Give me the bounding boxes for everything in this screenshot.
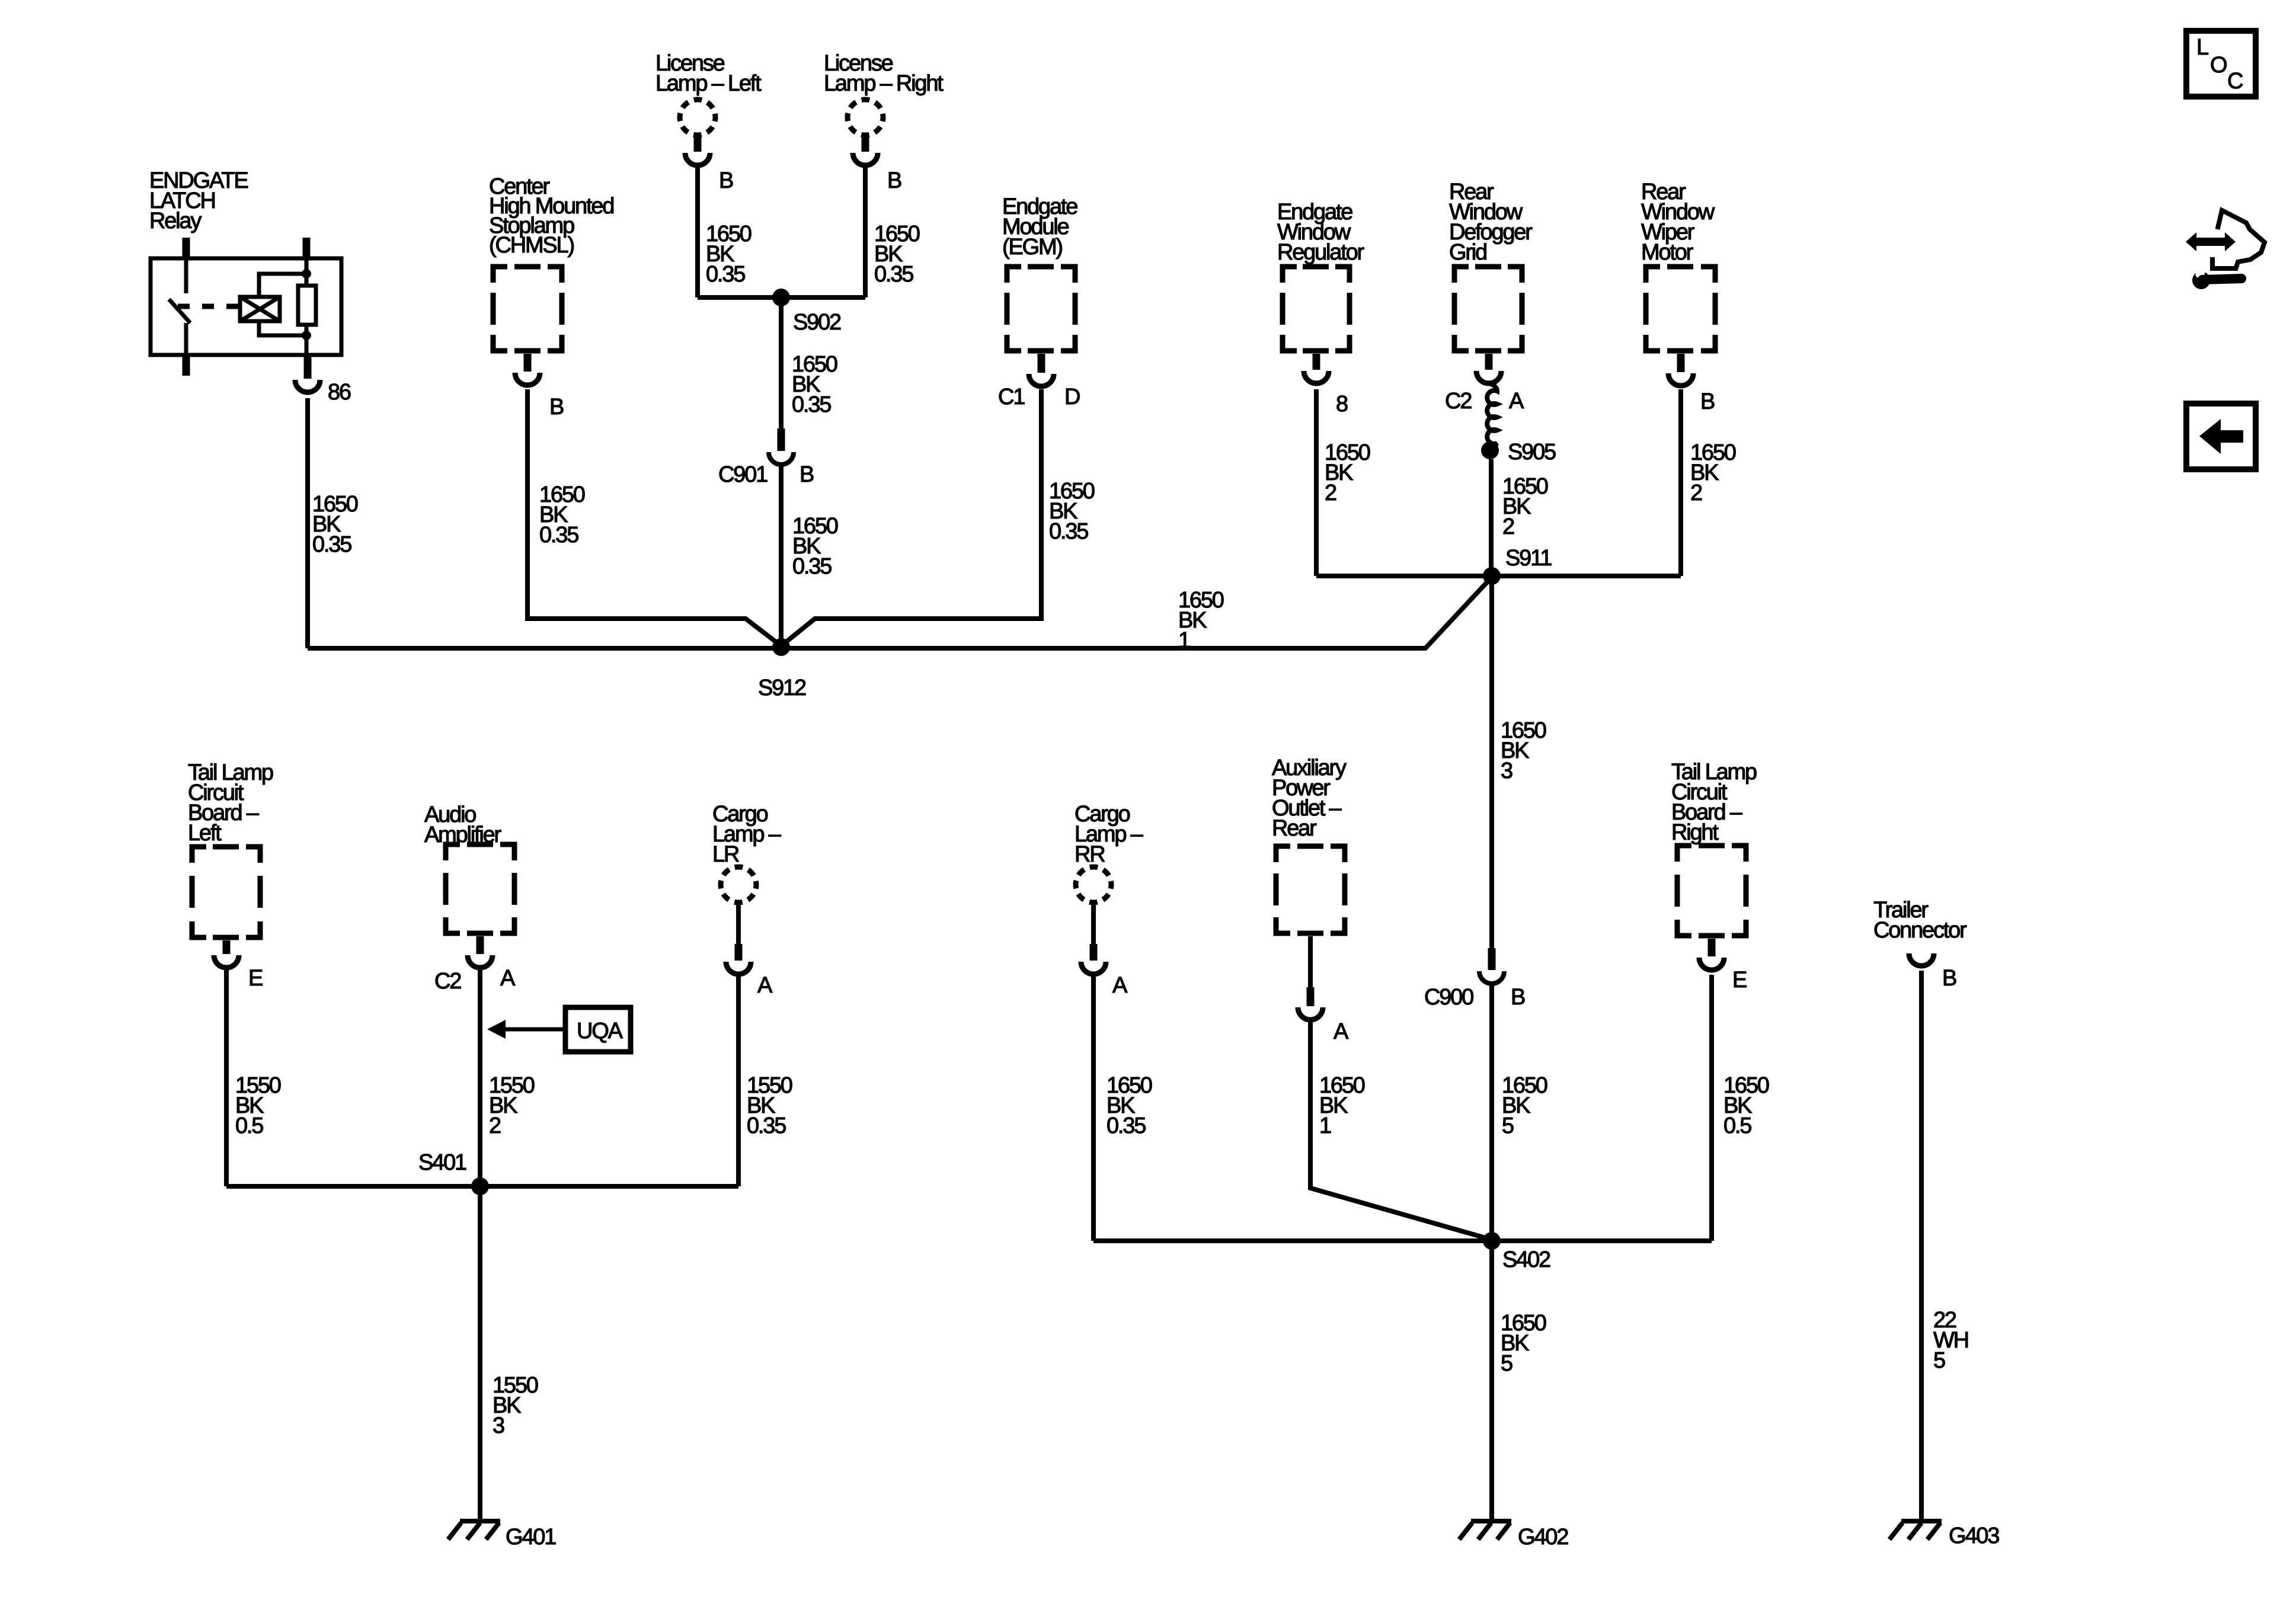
svg-text:A: A: [1112, 973, 1128, 998]
wire Aux Power Outlet lead: [1308, 936, 1313, 987]
relay pin stub top-right: [303, 238, 311, 257]
svg-text:1650BK0.35: 1650BK0.35: [874, 222, 920, 287]
component Audio Amplifier box: [446, 844, 514, 933]
relay internal vertical wire: [305, 257, 309, 357]
component Rear Window Defogger Grid box: [1454, 267, 1522, 351]
wire Cargo RR lamp lead: [1091, 902, 1096, 944]
Tail Lamp Left pin E connector: [214, 940, 239, 968]
Wiper Motor pin B connector: [1668, 354, 1693, 386]
relay ENDGATE LATCH Relay box: [151, 258, 341, 355]
relay actuation dashed line: [178, 304, 240, 309]
svg-text:E: E: [248, 966, 263, 991]
wire CHMSL B to S912: [527, 389, 781, 646]
relay switch contact: [169, 257, 190, 357]
svg-text:1650BK0.5: 1650BK0.5: [1723, 1073, 1769, 1138]
Cargo Lamp LR pin A connector: [726, 944, 751, 974]
wire S402 bus: [1093, 1238, 1712, 1243]
wire EGM D to S912: [781, 389, 1041, 646]
relay internal junction top: [302, 269, 311, 279]
svg-text:1650BK2: 1650BK2: [1690, 440, 1736, 505]
svg-text:B: B: [1942, 966, 1956, 991]
UQA arrow: [487, 1020, 565, 1039]
Tail Lamp Right pin E connector: [1699, 939, 1724, 970]
Aux Power Outlet pin A connector: [1298, 987, 1323, 1020]
splice S401: [471, 1177, 489, 1195]
svg-text:1650BK3: 1650BK3: [1501, 718, 1546, 783]
wire relay 86 to main line: [305, 398, 310, 648]
svg-text:EndgateModule(EGM): EndgateModule(EGM): [1002, 194, 1077, 260]
svg-text:LicenseLamp – Left: LicenseLamp – Left: [655, 51, 762, 96]
relay pin stub top-left: [183, 238, 190, 257]
wire Cargo RR A down: [1091, 975, 1096, 1241]
in-line connector C901: [769, 428, 794, 465]
svg-text:Tail LampCircuitBoard –Right: Tail LampCircuitBoard –Right: [1671, 760, 1757, 845]
Audio Amplifier pin A connector: [468, 936, 493, 968]
svg-text:G401: G401: [506, 1525, 556, 1550]
License Lamp Left pin B connector: [685, 135, 710, 165]
wire Cargo LR lamp lead: [736, 902, 741, 944]
svg-text:1650BK2: 1650BK2: [1502, 474, 1548, 539]
svg-text:AuxiliaryPowerOutlet –Rear: AuxiliaryPowerOutlet –Rear: [1272, 756, 1347, 841]
wire C900 to S402: [1489, 985, 1494, 1241]
svg-text:1550BK0.35: 1550BK0.35: [747, 1073, 792, 1138]
svg-text:C1: C1: [998, 385, 1025, 409]
svg-text:S401: S401: [418, 1150, 466, 1175]
relay coil box with X: [240, 297, 280, 321]
svg-text:8: 8: [1336, 392, 1348, 417]
svg-text:B: B: [1700, 389, 1715, 414]
wire S911 to C900: [1489, 576, 1494, 951]
EGM pin D connector: [1029, 354, 1054, 386]
svg-text:1650BK2: 1650BK2: [1325, 440, 1370, 505]
Trailer Connector pin B connector: [1909, 953, 1934, 966]
wire Regulator 8 down: [1314, 389, 1319, 576]
svg-text:1550BK0.5: 1550BK0.5: [235, 1073, 281, 1138]
svg-text:O: O: [2210, 53, 2227, 78]
relay resistor: [298, 286, 316, 325]
svg-text:A: A: [1509, 389, 1524, 414]
svg-text:C2: C2: [1445, 389, 1472, 414]
ground G402: [1459, 1521, 1511, 1539]
splice S902: [772, 289, 790, 306]
splice S402: [1483, 1232, 1501, 1250]
svg-text:D: D: [1064, 385, 1080, 409]
splice S911: [1483, 567, 1501, 585]
svg-text:CenterHigh MountedStoplamp(CHM: CenterHigh MountedStoplamp(CHMSL): [489, 174, 613, 258]
svg-text:B: B: [887, 168, 901, 193]
defogger coil (fusible link): [1487, 383, 1497, 449]
svg-text:1650BK1: 1650BK1: [1178, 588, 1224, 653]
component EGM box: [1007, 267, 1075, 351]
ground G401: [448, 1521, 500, 1539]
svg-text:1650BK0.35: 1650BK0.35: [706, 222, 752, 287]
icon: back arrow box: [2186, 404, 2256, 469]
svg-text:1650BK0.35: 1650BK0.35: [539, 482, 585, 548]
wire S905 to S911: [1489, 459, 1494, 576]
component CHMSL box: [493, 267, 562, 351]
svg-text:B: B: [1511, 985, 1525, 1010]
splice S905: [1481, 441, 1499, 459]
ground G403: [1889, 1521, 1942, 1539]
Defogger pin A connector: [1476, 354, 1501, 383]
svg-text:G403: G403: [1949, 1523, 1999, 1548]
svg-text:RearWindowDefoggerGrid: RearWindowDefoggerGrid: [1449, 180, 1533, 265]
svg-text:C900: C900: [1424, 985, 1473, 1010]
wire Tail Lamp Left E to S401: [224, 970, 229, 1186]
wire S401 bus: [226, 1184, 738, 1189]
svg-text:S902: S902: [793, 310, 841, 335]
svg-text:B: B: [719, 168, 733, 193]
svg-text:E: E: [1732, 968, 1747, 993]
wire Wiper Motor B down: [1678, 389, 1683, 576]
svg-text:1650BK5: 1650BK5: [1501, 1311, 1546, 1376]
svg-text:A: A: [757, 973, 773, 998]
CHMSL pin B connector: [515, 354, 540, 385]
lamp: Cargo Lamp - LR: [721, 867, 756, 902]
svg-text:TrailerConnector: TrailerConnector: [1873, 898, 1967, 943]
wire Tail Lamp Right E down: [1709, 975, 1714, 1241]
component Endgate Window Regulator box: [1283, 267, 1350, 351]
svg-text:1650BK0.35: 1650BK0.35: [792, 352, 837, 417]
License Lamp Right pin B connector: [853, 135, 878, 165]
icon: animal head with double arrow and wrench: [2186, 210, 2265, 289]
svg-text:A: A: [1334, 1019, 1349, 1044]
svg-text:1650BK0.35: 1650BK0.35: [792, 514, 838, 579]
wire Trailer Connector B to G403: [1919, 971, 1924, 1521]
wire S902 bus: [698, 295, 865, 300]
svg-text:EndgateWindowRegulator: EndgateWindowRegulator: [1277, 200, 1365, 265]
in-line connector C900: [1479, 948, 1504, 984]
svg-text:B: B: [800, 462, 814, 487]
svg-text:S912: S912: [758, 676, 806, 700]
UQA option box: [565, 1007, 631, 1052]
svg-text:86: 86: [328, 380, 351, 405]
svg-text:RearWindowWiperMotor: RearWindowWiperMotor: [1641, 180, 1715, 265]
svg-text:CargoLamp –LR: CargoLamp –LR: [712, 802, 782, 867]
svg-text:S905: S905: [1508, 440, 1556, 465]
svg-text:G402: G402: [1518, 1525, 1568, 1550]
svg-text:22WH5: 22WH5: [1933, 1308, 1968, 1373]
svg-text:LicenseLamp – Right: LicenseLamp – Right: [824, 51, 944, 96]
wire S911 bus: [1316, 574, 1681, 578]
wire main line S912 to S911: [308, 577, 1492, 648]
wire C901 to S912: [779, 466, 784, 647]
svg-text:S402: S402: [1502, 1247, 1550, 1272]
svg-text:C: C: [2227, 69, 2243, 94]
component Tail Lamp Circuit Board Left box: [192, 847, 260, 937]
svg-text:S911: S911: [1505, 546, 1552, 571]
svg-text:Tail LampCircuitBoard –Left: Tail LampCircuitBoard –Left: [188, 760, 273, 846]
svg-text:UQA: UQA: [577, 1019, 623, 1044]
icon: LOC box: [2186, 31, 2256, 97]
Regulator pin 8 connector: [1304, 354, 1329, 383]
lamp: License Lamp - Left: [680, 100, 715, 135]
component Auxiliary Power Outlet box: [1276, 846, 1345, 933]
svg-text:1550BK3: 1550BK3: [493, 1373, 538, 1438]
component Tail Lamp Circuit Board Right box: [1677, 846, 1746, 936]
lamp: Cargo Lamp - RR: [1076, 867, 1111, 902]
wire Aux Power Outlet A to S402: [1310, 1020, 1492, 1240]
relay coil wiring: [259, 274, 306, 335]
svg-text:1650BK5: 1650BK5: [1502, 1073, 1547, 1138]
wire License Right B to S902: [863, 166, 868, 297]
svg-text:1650BK0.35: 1650BK0.35: [312, 492, 358, 557]
relay pin 86 connector: [295, 357, 320, 392]
wire S902 to C901: [779, 297, 784, 428]
svg-text:C901: C901: [718, 462, 768, 487]
wire License Left B to S902: [695, 166, 700, 297]
svg-text:1650BK0.35: 1650BK0.35: [1107, 1073, 1152, 1138]
wire Cargo LR A to S401: [736, 975, 741, 1186]
wire S402 to G402: [1489, 1241, 1494, 1521]
splice S912: [772, 638, 790, 656]
Cargo Lamp RR pin A connector: [1081, 944, 1106, 974]
svg-text:1550BK2: 1550BK2: [489, 1073, 535, 1138]
svg-text:ENDGATELATCHRelay: ENDGATELATCHRelay: [149, 168, 248, 233]
svg-text:A: A: [500, 966, 516, 991]
component Rear Window Wiper Motor box: [1646, 267, 1715, 351]
wire Audio Amplifier A to G401 through S401: [478, 970, 482, 1521]
svg-text:L: L: [2196, 35, 2208, 60]
lamp: License Lamp - Right: [848, 100, 883, 135]
relay internal junction bottom: [302, 331, 311, 340]
svg-text:CargoLamp –RR: CargoLamp –RR: [1075, 802, 1144, 867]
relay pin stub bottom-left: [183, 357, 190, 376]
svg-text:C2: C2: [434, 969, 461, 994]
svg-text:B: B: [549, 395, 564, 420]
svg-text:1650BK1: 1650BK1: [1319, 1073, 1365, 1138]
svg-text:AudioAmplifier: AudioAmplifier: [424, 802, 502, 847]
svg-text:1650BK0.35: 1650BK0.35: [1049, 479, 1095, 544]
